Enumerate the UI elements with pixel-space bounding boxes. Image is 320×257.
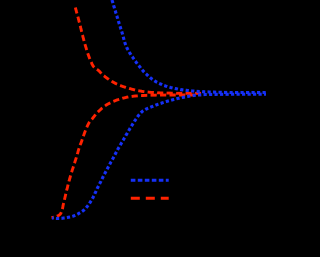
red dashed curve: lower branch	[52, 95, 202, 218]
blue dotted curve: upper branch	[112, 0, 266, 93]
blue dotted curve: lower branch	[52, 94, 266, 218]
legend blue dotted line	[131, 179, 169, 182]
red dashed curve: upper branch	[75, 7, 201, 93]
legend red dashed line	[131, 197, 169, 200]
